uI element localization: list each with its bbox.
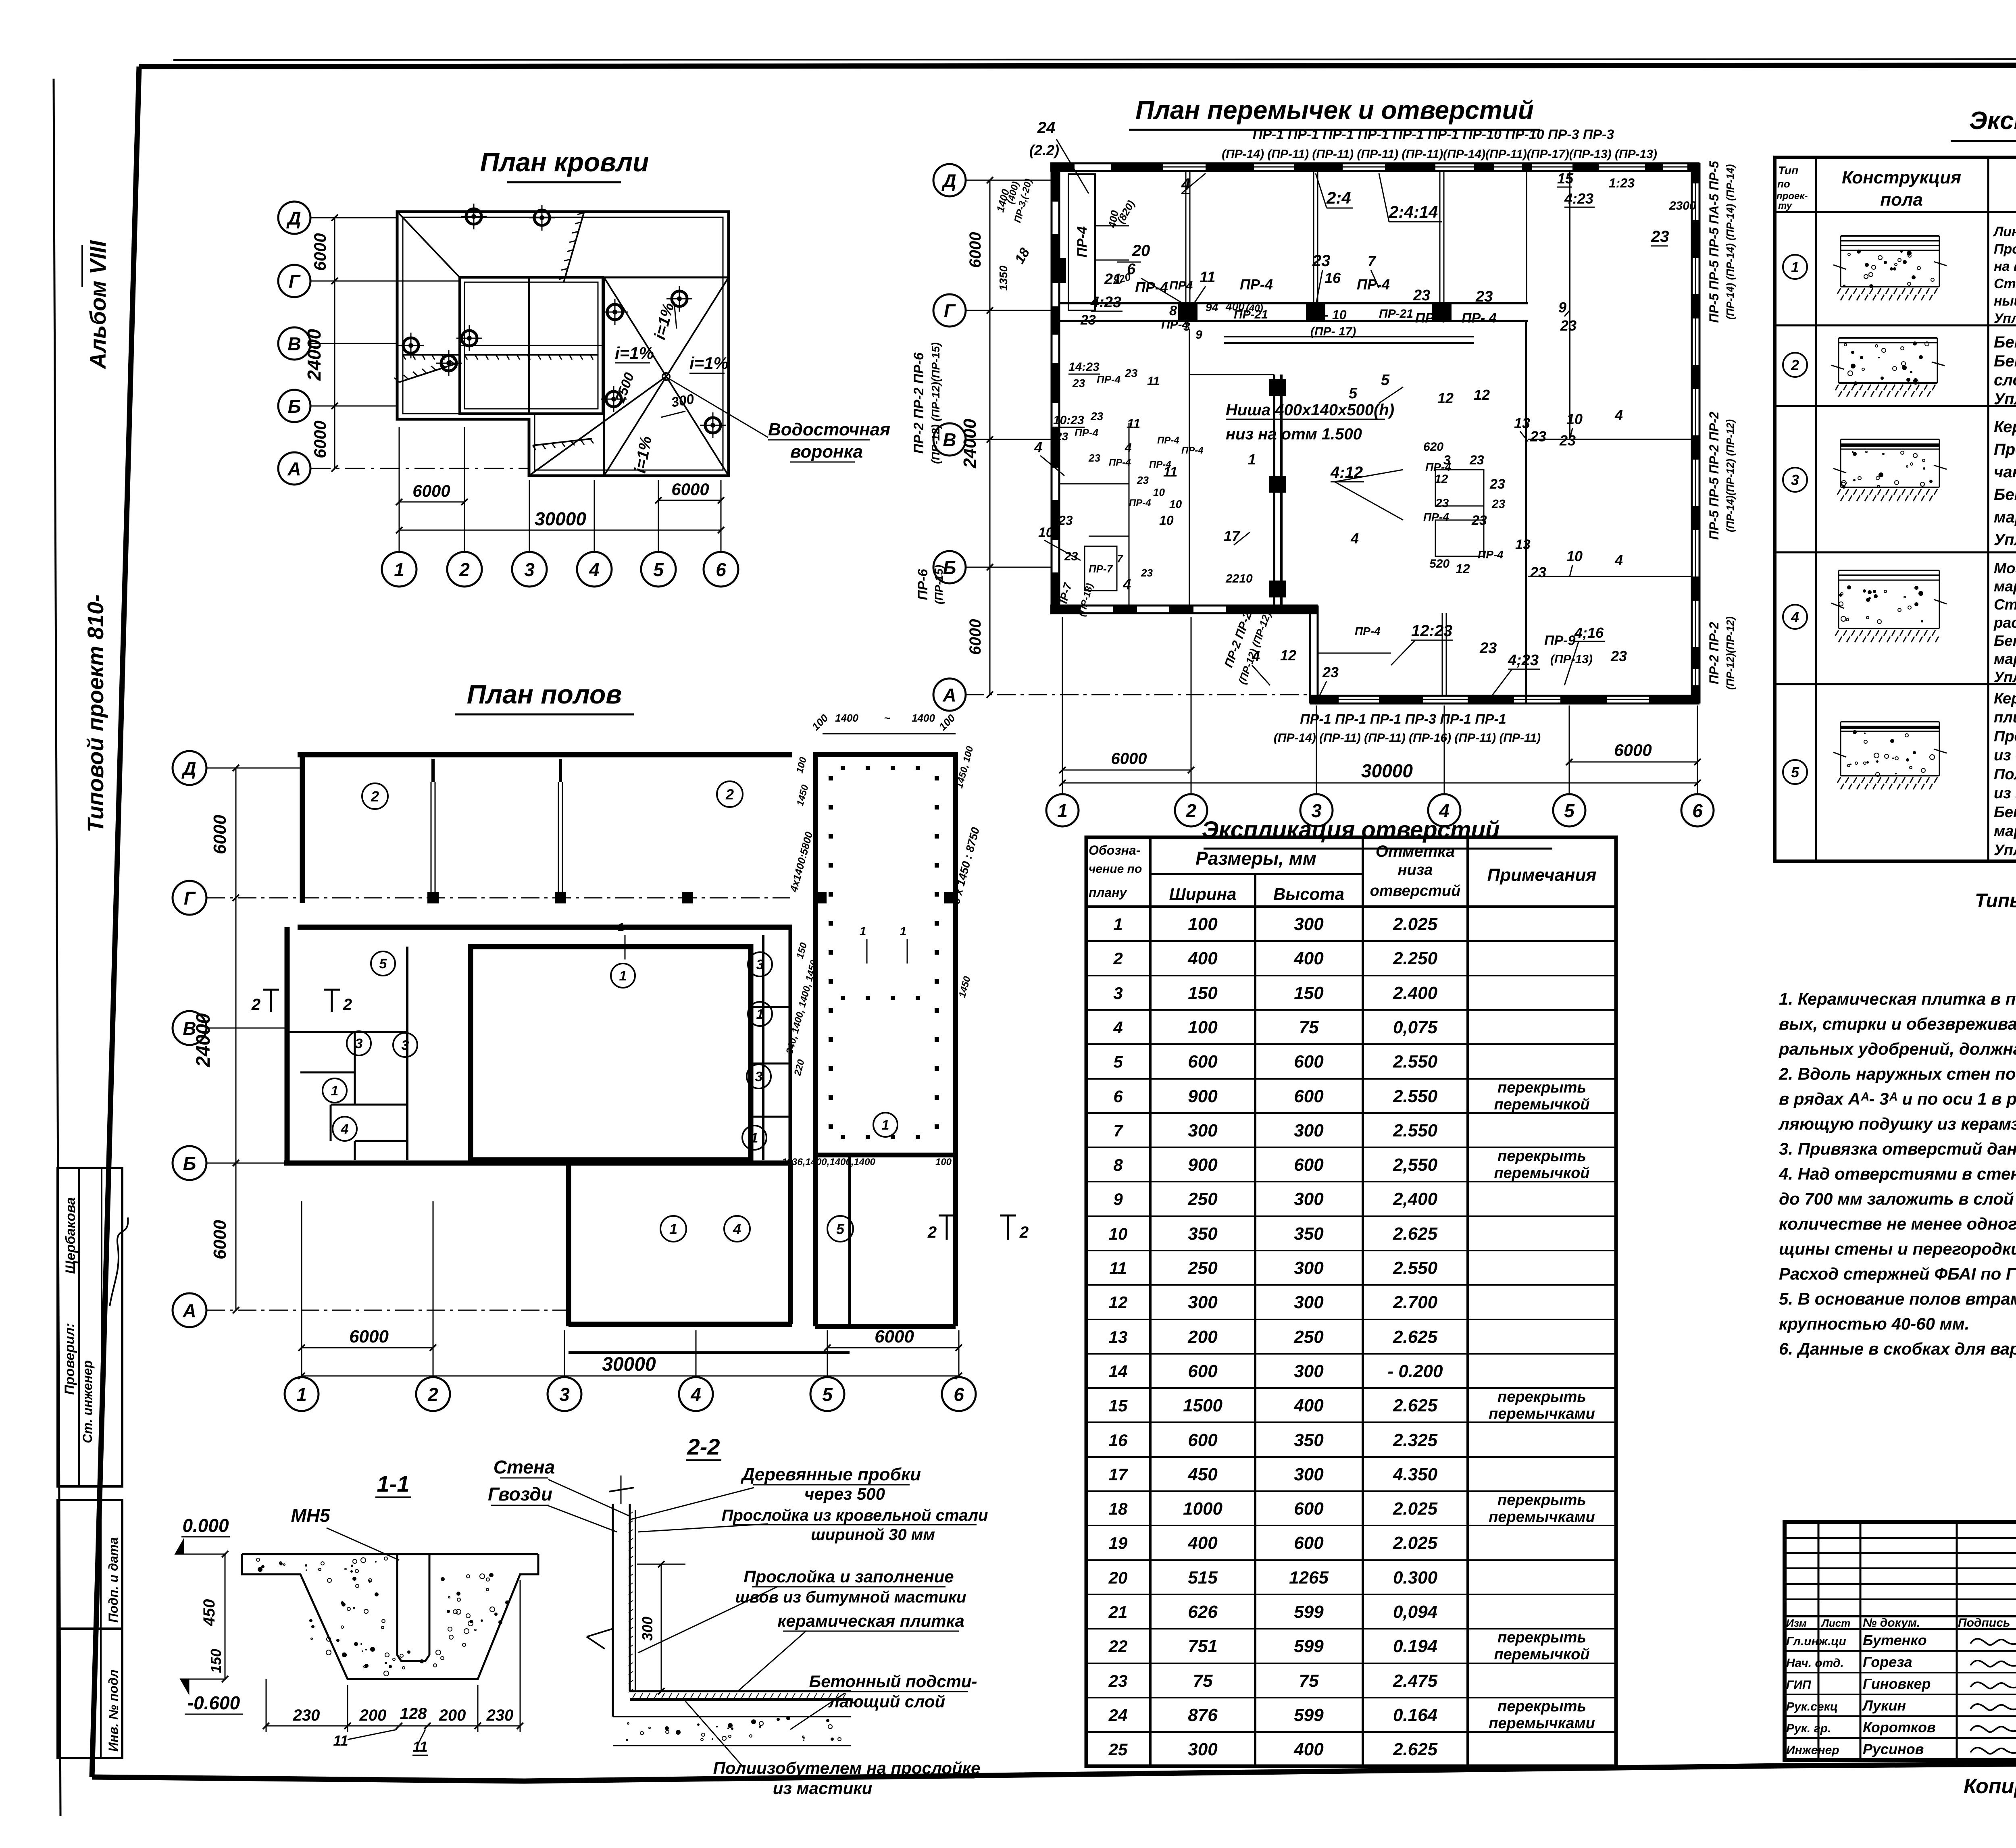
- svg-text:250: 250: [1187, 1189, 1218, 1209]
- svg-text:23: 23: [1141, 567, 1153, 579]
- svg-text:перемычками: перемычками: [1489, 1405, 1595, 1422]
- svg-text:7: 7: [1368, 253, 1377, 269]
- svg-text:Прослойка из цементно- пес-: Прослойка из цементно- пес-: [1994, 441, 2016, 458]
- svg-text:6000: 6000: [1614, 741, 1652, 760]
- svg-text:450: 450: [1187, 1465, 1218, 1484]
- roof plan valley diagonals left block: [397, 212, 460, 277]
- hatched strips in sketches 3 and 5: [1841, 444, 1939, 447]
- svg-text:5: 5: [1349, 385, 1358, 402]
- svg-text:3: 3: [355, 1036, 363, 1051]
- svg-text:ПР-1 ПР-1 ПР-1 ПР-1: ПР-1 ПР-1 ПР-1 ПР-1 ПР-1 ПР-1 ПР-10 ПР-1…: [1253, 127, 1614, 142]
- svg-text:9: 9: [1558, 299, 1566, 316]
- svg-text:23: 23: [1080, 312, 1096, 328]
- svg-text:А: А: [942, 685, 956, 705]
- svg-text:Деревянные пробки: Деревянные пробки: [740, 1465, 921, 1484]
- lintel plan bottom wall (middle band): [1050, 605, 1318, 607]
- svg-text:620: 620: [1423, 440, 1443, 454]
- svg-text:марки 100.: марки 100.: [1994, 823, 2016, 840]
- svg-text:5: 5: [836, 1221, 845, 1237]
- svg-text:слой марки 100: слой марки 100: [1994, 371, 2016, 389]
- svg-text:перемычками: перемычками: [1489, 1509, 1595, 1525]
- svg-text:из мастики (Г-3а, 1слой): из мастики (Г-3а, 1слой): [1994, 785, 2016, 802]
- svg-text:23: 23: [1530, 428, 1546, 445]
- svg-text:2.250: 2.250: [1393, 949, 1438, 968]
- svg-text:ту: ту: [1778, 200, 1793, 211]
- svg-text:перемычкой: перемычкой: [1494, 1096, 1589, 1113]
- svg-text:23: 23: [1479, 640, 1497, 657]
- svg-text:4: 4: [733, 1221, 741, 1237]
- svg-text:12: 12: [1280, 647, 1296, 664]
- svg-text:Полиизобутелем на прослойке: Полиизобутелем на прослойке: [713, 1759, 981, 1777]
- svg-text:626: 626: [1188, 1602, 1218, 1622]
- svg-text:ный подстилающий слой марки 10: ный подстилающий слой марки 100: [1994, 293, 2016, 309]
- svg-text:на водостойких, вяжущих: на водостойких, вяжущих: [1994, 259, 2016, 274]
- roof plan hip diagonals right block: [604, 277, 729, 476]
- svg-text:2. Вдоль наружных стен по: 2. Вдоль наружных стен по оси 3ᴬ, по оси…: [1779, 1064, 2016, 1083]
- svg-text:(40): (40): [1246, 303, 1263, 314]
- floor explication row circles: [1783, 255, 1807, 279]
- svg-text:низ на отм 1.500: низ на отм 1.500: [1226, 425, 1362, 443]
- svg-text:перемычками: перемычками: [1489, 1715, 1595, 1732]
- svg-text:10: 10: [1153, 486, 1165, 498]
- svg-text:3: 3: [402, 1038, 409, 1053]
- svg-text:перекрыть: перекрыть: [1497, 1388, 1586, 1405]
- svg-text:21: 21: [1104, 271, 1121, 288]
- svg-text:7: 7: [1113, 1121, 1123, 1140]
- svg-text:ПР-4: ПР-4: [1075, 226, 1090, 257]
- svg-text:600: 600: [1294, 1052, 1324, 1072]
- svg-text:(ПР- 17): (ПР- 17): [1310, 325, 1356, 338]
- svg-text:14:23: 14:23: [1068, 360, 1100, 374]
- svg-text:2.400: 2.400: [1393, 983, 1438, 1003]
- section 2-2 dimension 300: [661, 1564, 662, 1691]
- lintel plan label leader lines: [1181, 173, 1206, 194]
- svg-text:Высота: Высота: [1273, 884, 1344, 903]
- svg-text:Б: Б: [183, 1153, 196, 1174]
- left margin: checked-by box: [58, 1168, 122, 1486]
- svg-text:Бетонный подстилающий: Бетонный подстилающий: [1994, 352, 2016, 370]
- svg-text:Проверил:: Проверил:: [62, 1323, 77, 1395]
- roof vents: [466, 209, 481, 224]
- svg-text:План полов: План полов: [467, 679, 622, 709]
- lintel plan central hall walls: [1273, 375, 1275, 606]
- svg-text:8: 8: [1113, 1155, 1123, 1174]
- svg-text:6000: 6000: [966, 619, 984, 655]
- svg-text:5: 5: [822, 1384, 833, 1405]
- lintel plan step wall: [1309, 606, 1311, 703]
- svg-text:23: 23: [1491, 497, 1506, 511]
- svg-text:300: 300: [639, 1617, 656, 1641]
- svg-text:23: 23: [1088, 452, 1100, 464]
- svg-text:23: 23: [1055, 430, 1068, 443]
- svg-text:2.700: 2.700: [1393, 1292, 1438, 1312]
- svg-text:1: 1: [394, 559, 404, 580]
- svg-text:350: 350: [1294, 1430, 1324, 1450]
- roof drain funnel: [662, 373, 670, 380]
- svg-text:6000: 6000: [671, 480, 709, 499]
- svg-text:1400: 1400: [912, 712, 935, 724]
- svg-text:Гиновкер: Гиновкер: [1863, 1675, 1931, 1692]
- floor plan room circles middle band: [371, 951, 395, 976]
- svg-text:6000: 6000: [966, 232, 984, 268]
- svg-text:75: 75: [1299, 1018, 1319, 1037]
- svg-text:12: 12: [1109, 1293, 1128, 1312]
- svg-text:Стяжка-из цементно-песчаного: Стяжка-из цементно-песчаного: [1994, 596, 2016, 613]
- svg-text:14: 14: [1109, 1362, 1128, 1381]
- svg-text:ПР4: ПР4: [1169, 279, 1193, 292]
- svg-text:10: 10: [1566, 548, 1583, 564]
- svg-text:21: 21: [1108, 1602, 1128, 1621]
- svg-text:Коротков: Коротков: [1863, 1719, 1936, 1736]
- svg-text:230: 230: [293, 1706, 320, 1724]
- svg-text:2: 2: [343, 996, 352, 1013]
- svg-text:3. Привязка отверстий дана: 3. Привязка отверстий дана по их центрам…: [1779, 1139, 2016, 1158]
- svg-text:Бетон марки 300: Бетон марки 300: [1994, 333, 2016, 351]
- svg-text:1: 1: [756, 1007, 764, 1022]
- svg-text:плиты ( ГОСТ 961 - 68): плиты ( ГОСТ 961 - 68): [1994, 709, 2016, 726]
- svg-text:Лукин: Лукин: [1862, 1697, 1906, 1714]
- svg-text:ПР-2 ПР-2 ПР-6: ПР-2 ПР-2 ПР-6: [911, 352, 927, 454]
- svg-text:ПР-9: ПР-9: [1544, 633, 1575, 648]
- svg-text:4.350: 4.350: [1393, 1465, 1438, 1484]
- svg-text:ПР-21: ПР-21: [1379, 307, 1413, 320]
- svg-text:6000: 6000: [210, 815, 230, 854]
- svg-text:1: 1: [619, 968, 627, 984]
- svg-text:250: 250: [1187, 1258, 1218, 1278]
- svg-text:1: 1: [882, 1118, 889, 1133]
- section 1-1 concrete speckles: [361, 1558, 366, 1563]
- svg-text:i=1%: i=1%: [615, 343, 654, 362]
- section 1-1 channel outline: [242, 1553, 538, 1555]
- svg-text:5. В основание полов втрамб: 5. В основание полов втрамбовать слой ще…: [1779, 1289, 2016, 1308]
- svg-text:1350: 1350: [997, 265, 1010, 291]
- svg-text:1265: 1265: [1289, 1568, 1329, 1588]
- svg-text:23: 23: [1413, 287, 1430, 304]
- floor explication table grid: [1775, 157, 2016, 861]
- svg-text:13: 13: [1515, 537, 1531, 552]
- svg-text:Прослойка из кровельной стали: Прослойка из кровельной стали: [722, 1507, 988, 1524]
- svg-text:250: 250: [1293, 1327, 1324, 1347]
- floor plan axis lines: [206, 768, 300, 769]
- roof plan left dimension chain: [334, 218, 335, 468]
- svg-text:75: 75: [1299, 1671, 1319, 1691]
- svg-text:23: 23: [1322, 664, 1339, 681]
- svg-text:плану: плану: [1089, 885, 1128, 900]
- floor plan right rooms middle band: [762, 935, 764, 1160]
- svg-text:23: 23: [1469, 453, 1484, 467]
- svg-text:23: 23: [1475, 288, 1493, 305]
- svg-text:600: 600: [1294, 1533, 1324, 1553]
- svg-text:2300: 2300: [1669, 199, 1696, 212]
- svg-text:Д: Д: [941, 170, 956, 191]
- svg-text:3: 3: [559, 1384, 570, 1405]
- svg-text:ральных удобрений, должна им: ральных удобрений, должна иметь рифленую…: [1779, 1039, 2016, 1058]
- svg-text:5: 5: [1381, 372, 1390, 389]
- svg-text:900: 900: [1188, 1086, 1218, 1106]
- svg-text:6. Данные в скобках для вар: 6. Данные в скобках для варианта с tн = …: [1779, 1339, 2016, 1358]
- svg-text:10: 10: [1109, 1224, 1128, 1243]
- svg-text:4: 4: [1125, 441, 1132, 454]
- svg-text:2:4: 2:4: [1326, 188, 1351, 207]
- svg-text:2.025: 2.025: [1393, 1499, 1438, 1519]
- sketch 4: [1839, 570, 1939, 571]
- svg-text:2.550: 2.550: [1393, 1258, 1438, 1278]
- floor plan axis circles: [173, 751, 206, 785]
- svg-text:через 500: через 500: [804, 1484, 885, 1503]
- svg-text:515: 515: [1188, 1568, 1218, 1588]
- svg-text:5: 5: [379, 956, 387, 972]
- drain label: [668, 378, 768, 437]
- svg-text:599: 599: [1294, 1636, 1324, 1656]
- svg-text:6000: 6000: [412, 481, 450, 500]
- svg-text:1: 1: [669, 1221, 677, 1237]
- svg-text:Стена: Стена: [494, 1457, 555, 1478]
- lintel plan small rooms right-center: [1435, 470, 1484, 506]
- svg-text:600: 600: [1294, 1086, 1324, 1106]
- svg-text:450: 450: [200, 1599, 218, 1627]
- svg-text:3: 3: [1113, 984, 1123, 1003]
- svg-text:ПР-7: ПР-7: [1089, 563, 1113, 575]
- svg-text:6: 6: [716, 559, 726, 580]
- svg-text:Подпись: Подпись: [1958, 1616, 2010, 1629]
- svg-text:Копировал Николаева: Копировал Николаева: [1964, 1775, 2016, 1798]
- svg-text:6: 6: [1692, 800, 1703, 821]
- svg-text:Прослойка и заполнение швов: Прослойка и заполнение швов: [1994, 728, 2016, 745]
- svg-text:10:23: 10:23: [1053, 414, 1084, 427]
- svg-text:400: 400: [1293, 949, 1324, 968]
- svg-text:ПР-4: ПР-4: [1109, 457, 1131, 468]
- svg-text:6000: 6000: [310, 233, 329, 271]
- svg-text:А: А: [182, 1300, 196, 1321]
- svg-text:ПР-4: ПР-4: [1357, 276, 1390, 293]
- svg-text:2.625: 2.625: [1393, 1740, 1438, 1759]
- svg-text:1: 1: [900, 925, 907, 938]
- svg-text:4: 4: [589, 559, 600, 580]
- svg-text:Стяжка-легкий бетон марки 50.: Стяжка-легкий бетон марки 50. Бетон-: [1994, 276, 2016, 291]
- svg-text:Д: Д: [286, 208, 301, 229]
- svg-text:3: 3: [756, 957, 764, 972]
- svg-text:2.475: 2.475: [1393, 1671, 1438, 1691]
- svg-text:5: 5: [1564, 800, 1575, 821]
- svg-text:16: 16: [1325, 270, 1341, 286]
- svg-text:Нач. отд.: Нач. отд.: [1786, 1657, 1844, 1670]
- svg-text:Водосточная: Водосточная: [768, 420, 890, 439]
- svg-text:1: 1: [860, 925, 866, 938]
- svg-text:751: 751: [1188, 1636, 1217, 1656]
- lintel plan lower band partition: [1442, 613, 1443, 696]
- svg-text:300: 300: [1188, 1121, 1218, 1140]
- svg-text:Рук.секц: Рук.секц: [1786, 1700, 1838, 1713]
- svg-text:ПР-4: ПР-4: [1423, 511, 1449, 523]
- svg-text:Гл.инж.ци: Гл.инж.ци: [1786, 1635, 1846, 1648]
- svg-text:4: 4: [690, 1384, 701, 1405]
- svg-text:отверстий: отверстий: [1370, 882, 1461, 899]
- svg-text:4:23: 4:23: [1564, 190, 1593, 207]
- svg-text:24: 24: [1108, 1706, 1128, 1725]
- section 1-1 bottom dimensions: [266, 1725, 520, 1727]
- svg-text:4: 4: [1034, 439, 1042, 456]
- svg-text:4. Над отверстиями в стенах: 4. Над отверстиями в стенах и перегородк…: [1779, 1164, 2016, 1183]
- svg-text:2.625: 2.625: [1393, 1327, 1438, 1347]
- svg-text:24000: 24000: [304, 329, 325, 381]
- svg-text:ПР-6: ПР-6: [915, 568, 931, 600]
- svg-text:300: 300: [1294, 914, 1324, 934]
- svg-text:10: 10: [1038, 525, 1054, 540]
- svg-text:12: 12: [1456, 562, 1470, 576]
- svg-text:30000: 30000: [602, 1354, 656, 1375]
- svg-text:23: 23: [1435, 497, 1449, 510]
- svg-text:4: 4: [1791, 609, 1799, 625]
- lintel plan bottom dimensions: [1569, 762, 1697, 763]
- svg-text:Рук. гр.: Рук. гр.: [1786, 1722, 1831, 1735]
- svg-text:600: 600: [1188, 1052, 1218, 1072]
- svg-text:(ПР-12)(ПР-12): (ПР-12)(ПР-12): [1724, 616, 1736, 690]
- svg-text:25: 25: [1108, 1740, 1128, 1759]
- svg-text:599: 599: [1294, 1705, 1324, 1725]
- svg-text:300: 300: [1294, 1121, 1324, 1140]
- svg-text:Ширина: Ширина: [1169, 884, 1237, 903]
- svg-text:23: 23: [1108, 1671, 1128, 1690]
- svg-text:перекрыть: перекрыть: [1497, 1698, 1586, 1715]
- svg-text:10: 10: [1566, 411, 1583, 427]
- svg-text:300: 300: [1294, 1292, 1324, 1312]
- svg-text:9: 9: [1195, 328, 1202, 341]
- svg-text:1:23: 1:23: [1609, 176, 1635, 190]
- lintel plan right rooms partition: [1569, 171, 1570, 439]
- svg-text:2.625: 2.625: [1393, 1224, 1438, 1244]
- svg-text:2: 2: [427, 1384, 438, 1405]
- svg-text:2: 2: [1113, 949, 1123, 968]
- svg-text:Бетонный подстилающий слой: Бетонный подстилающий слой: [1994, 633, 2016, 649]
- svg-text:11: 11: [1127, 416, 1140, 431]
- roof plan outline: [397, 212, 729, 476]
- svg-text:1000: 1000: [1183, 1499, 1223, 1519]
- lintel plan bottom column circles: [1046, 794, 1079, 826]
- svg-text:11: 11: [1109, 1259, 1127, 1278]
- svg-text:2.025: 2.025: [1393, 914, 1438, 934]
- svg-text:марки 100: марки 100: [1994, 651, 2016, 667]
- svg-text:в рядах Аᴬ- 3ᴬ и по оси: в рядах Аᴬ- 3ᴬ и по оси 1 в рядах Бᴬ - В…: [1779, 1089, 2016, 1108]
- svg-text:0.164: 0.164: [1393, 1705, 1437, 1725]
- svg-text:23: 23: [1090, 410, 1104, 422]
- svg-text:перекрыть: перекрыть: [1497, 1079, 1586, 1096]
- svg-text:6000: 6000: [349, 1327, 389, 1346]
- svg-text:Ниша 400х140х500(h): Ниша 400х140х500(h): [1226, 401, 1394, 419]
- svg-text:2.550: 2.550: [1393, 1121, 1438, 1140]
- svg-text:Уплотненный грунт основания: Уплотненный грунт основания: [1994, 669, 2016, 685]
- svg-text:План перемычек и отверстий: План перемычек и отверстий: [1135, 96, 1534, 125]
- svg-text:600: 600: [1294, 1155, 1324, 1175]
- svg-text:Линолеум ГОСТ 7251-77: Линолеум ГОСТ 7251-77: [1993, 224, 2016, 239]
- svg-text:2: 2: [1185, 800, 1196, 821]
- svg-text:ПР-4: ПР-4: [1355, 625, 1381, 637]
- svg-text:№ докум.: № докум.: [1863, 1616, 1920, 1629]
- svg-text:(ПР-12) (ПР-12)(ПР-15): (ПР-12) (ПР-12)(ПР-15): [929, 342, 942, 464]
- svg-text:Тип: Тип: [1778, 164, 1798, 177]
- svg-text:ПР-4: ПР-4: [1097, 373, 1121, 385]
- svg-text:по: по: [1777, 178, 1790, 190]
- svg-text:15: 15: [1557, 170, 1574, 187]
- svg-text:23: 23: [1560, 317, 1577, 334]
- left margin: inventory box: [58, 1500, 122, 1758]
- lintel plan left shaft room: [1068, 174, 1095, 310]
- svg-text:23: 23: [1312, 252, 1331, 270]
- svg-text:ляющую подушку из керамзитов: ляющую подушку из керамзитового гравия γ…: [1778, 1114, 2016, 1133]
- roof ridge lines right block: [603, 277, 729, 279]
- svg-text:300: 300: [1188, 1740, 1218, 1759]
- svg-text:600: 600: [1188, 1361, 1218, 1381]
- lintel plan niche wall: [1224, 336, 1474, 337]
- svg-text:400: 400: [1225, 300, 1245, 313]
- svg-text:ПР-5 ПР-5 ПР-2 ПР-2: ПР-5 ПР-5 ПР-2 ПР-2: [1707, 412, 1721, 540]
- svg-text:3: 3: [524, 559, 535, 580]
- svg-text:10: 10: [1159, 513, 1174, 528]
- svg-text:8: 8: [1169, 303, 1177, 318]
- roof plan axis circles: [278, 202, 310, 234]
- svg-text:ПР- 4: ПР- 4: [1462, 310, 1497, 326]
- openings table grid: [1086, 837, 1616, 1766]
- svg-text:из мастики: из мастики: [773, 1779, 872, 1798]
- svg-text:вых, стирки и обезвреживания: вых, стирки и обезвреживания рабочей оде…: [1779, 1014, 2016, 1033]
- svg-text:13: 13: [1109, 1328, 1128, 1346]
- lintel plan axis lines: [966, 180, 1052, 181]
- svg-text:2:4:14: 2:4:14: [1389, 202, 1438, 221]
- svg-text:23: 23: [1530, 564, 1546, 581]
- svg-text:23: 23: [1471, 513, 1487, 528]
- svg-text:Уплотненный грунт основания: Уплотненный грунт основания: [1994, 390, 2016, 408]
- svg-text:23: 23: [1072, 377, 1085, 389]
- svg-text:ПР-4: ПР-4: [1240, 276, 1273, 293]
- svg-text:4: 4: [341, 1122, 349, 1137]
- svg-text:Инженер: Инженер: [1786, 1744, 1839, 1757]
- svg-text:крупностью 40-60 мм.: крупностью 40-60 мм.: [1779, 1314, 1969, 1333]
- svg-text:599: 599: [1294, 1602, 1324, 1622]
- section 2-2 wall: [612, 1504, 614, 1717]
- svg-text:6000: 6000: [1111, 750, 1147, 768]
- svg-text:Гореза: Гореза: [1863, 1654, 1912, 1670]
- svg-text:Полиизобутилен на прослойке: Полиизобутилен на прослойке: [1994, 766, 2016, 783]
- svg-text:1: 1: [751, 1130, 758, 1146]
- svg-text:2: 2: [371, 788, 379, 805]
- svg-text:128: 128: [400, 1705, 427, 1723]
- svg-text:ПР-4: ПР-4: [1135, 279, 1168, 296]
- svg-text:Типы слоев обозначены по: Типы слоев обозначены по СНиП II-В, 8-72…: [1975, 890, 2016, 912]
- svg-text:перекрыть: перекрыть: [1497, 1492, 1586, 1509]
- svg-text:(ПР-14)(ПР-12) (ПР-12): (ПР-14)(ПР-12) (ПР-12): [1724, 419, 1736, 532]
- svg-text:Подп. и дата: Подп. и дата: [106, 1537, 121, 1623]
- svg-text:~: ~: [884, 712, 890, 724]
- svg-text:6000: 6000: [310, 420, 329, 458]
- svg-text:Лист: Лист: [1821, 1617, 1850, 1629]
- lintel plan small rooms lower-left: [1129, 423, 1130, 606]
- lintel plan axis circles: [933, 164, 966, 196]
- floor plan room circles top band: [362, 783, 388, 809]
- svg-text:Альбом VIII: Альбом VIII: [85, 240, 110, 370]
- svg-text:МН5: МН5: [291, 1505, 331, 1526]
- svg-text:7: 7: [1117, 553, 1123, 565]
- svg-text:6000: 6000: [875, 1327, 914, 1346]
- svg-text:2: 2: [1019, 1224, 1029, 1241]
- svg-text:4: 4: [1350, 530, 1359, 547]
- svg-text:75: 75: [1193, 1671, 1213, 1691]
- svg-text:23: 23: [1125, 367, 1138, 379]
- svg-text:В: В: [943, 429, 956, 450]
- section 2-2 tile layer on wall: [635, 1510, 636, 1691]
- svg-text:18: 18: [1109, 1499, 1128, 1518]
- svg-text:16: 16: [1109, 1431, 1128, 1450]
- svg-text:пола: пола: [1880, 190, 1923, 210]
- roof plan bottom column circles: [382, 552, 417, 587]
